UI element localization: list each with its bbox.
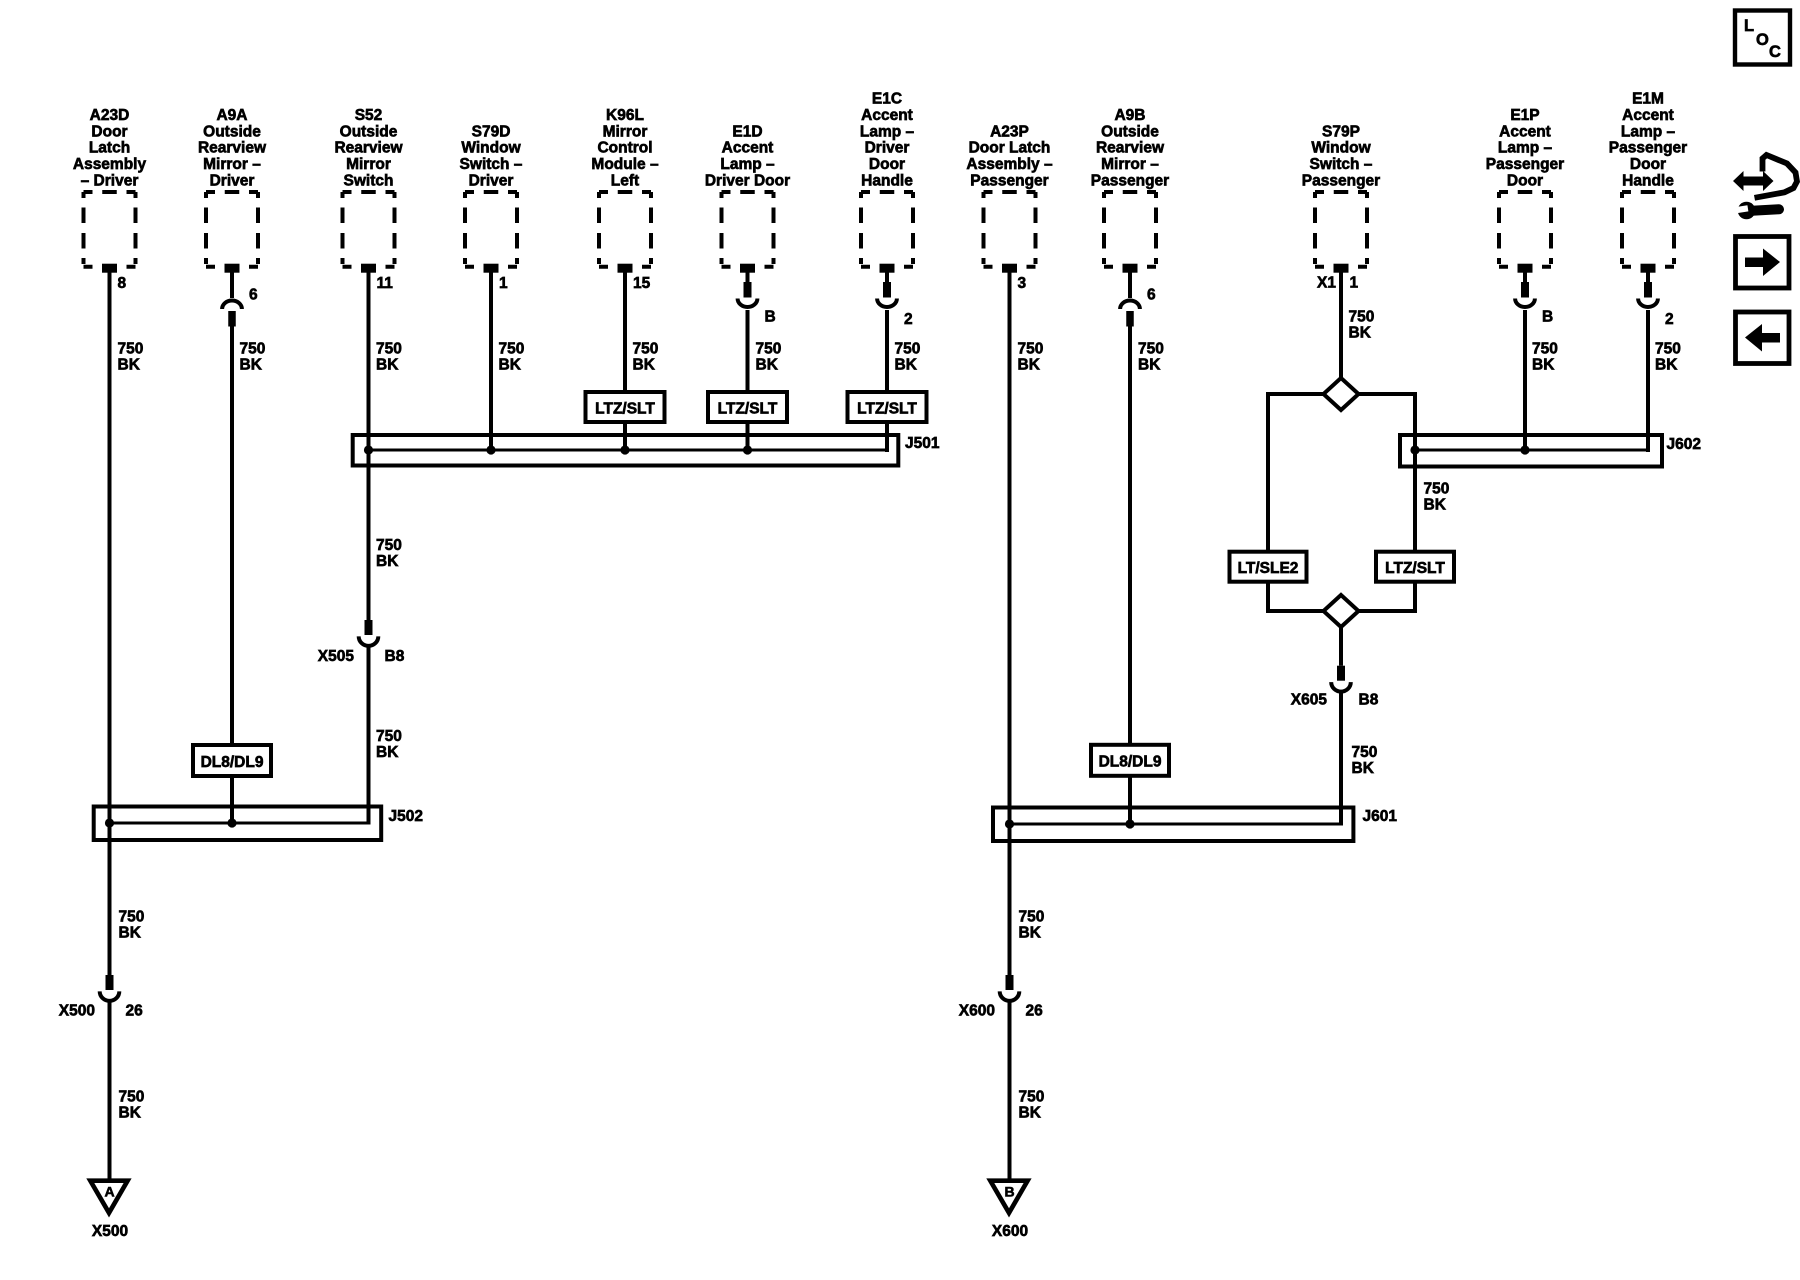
svg-text:A9A: A9A [216,107,247,124]
wire label 750 BK (E1P) [1532,341,1558,374]
svg-text:Switch –: Switch – [460,156,523,173]
svg-text:Handle: Handle [861,173,913,190]
wire label 750 BK (S79D) [499,341,525,374]
wire LT/SLE2 down [1266,582,1270,613]
svg-text:Module –: Module – [591,156,659,173]
svg-text:750: 750 [118,341,144,358]
svg-text:Rearview: Rearview [198,140,267,157]
svg-text:15: 15 [633,275,651,292]
connector box S79D Window Switch - Driver [465,192,517,273]
svg-text:C: C [1769,43,1781,61]
wire A23P pin 3 to X600 [1008,267,1012,975]
label E1P [1486,107,1564,190]
wire label 750 BK (E1D) [756,341,782,374]
svg-text:Latch: Latch [89,140,130,157]
wire X500 to ground A [108,1003,112,1181]
svg-text:E1M: E1M [1632,91,1664,108]
wire left branch to lower diamond [1266,609,1324,613]
svg-text:BK: BK [1349,325,1372,342]
svg-text:Driver: Driver [210,173,255,190]
svg-text:750: 750 [1424,481,1450,498]
svg-text:Window: Window [461,140,521,157]
harness repair icon (double arrow, hook arrow, wrench) [1733,155,1797,219]
svg-text:A9B: A9B [1114,107,1145,124]
svg-text:K96L: K96L [606,107,644,124]
svg-text:2: 2 [904,311,913,328]
svg-text:Switch –: Switch – [1310,156,1373,173]
splice pack J601 [993,808,1353,842]
svg-text:LTZ/SLT: LTZ/SLT [1385,560,1445,577]
svg-text:BK: BK [756,357,779,374]
svg-text:750: 750 [1655,341,1681,358]
wire label 750 BK (A23P lower) [1019,909,1045,942]
svg-text:J601: J601 [1363,808,1398,825]
svg-text:BK: BK [119,1105,142,1122]
svg-text:LT/SLE2: LT/SLE2 [1238,560,1299,577]
svg-text:Passenger: Passenger [1091,173,1169,190]
svg-text:Passenger: Passenger [970,173,1048,190]
connector box A23P Door Latch Assembly - Passenger [984,192,1036,273]
svg-text:X1: X1 [1317,275,1336,292]
label A23P [966,123,1053,189]
svg-text:26: 26 [126,1003,144,1020]
wire LTZ/SLT to J501 (K96L) [623,422,627,450]
svg-text:1: 1 [499,275,508,292]
harness option box LTZ/SLT (right S79P branch) [1376,552,1454,582]
svg-text:BK: BK [1424,497,1447,514]
wire label 750 BK (A23D lower) [119,909,145,942]
ground A (X500) [86,1178,131,1217]
connector box A9A Outside Rearview Mirror - Driver [206,192,258,273]
svg-text:Handle: Handle [1622,173,1674,190]
harness option box LTZ/SLT (E1D branch) [708,392,787,422]
svg-text:J502: J502 [389,808,423,825]
svg-text:BK: BK [376,744,399,761]
svg-text:S79D: S79D [472,123,511,140]
svg-text:LTZ/SLT: LTZ/SLT [595,400,655,417]
svg-text:A23P: A23P [990,123,1029,140]
label S79D [460,123,523,189]
svg-text:Driver: Driver [865,140,910,157]
svg-text:Window: Window [1311,140,1371,157]
svg-text:Door: Door [91,123,127,140]
harness option box DL8/DL9 (A9B branch) [1091,745,1169,776]
inline connector A9B pin 6 [1120,267,1140,327]
svg-text:Passenger: Passenger [1486,156,1564,173]
wire E1D to LTZ/SLT [746,310,750,392]
svg-text:X500: X500 [59,1003,95,1020]
wire diamond to left branch [1268,392,1324,396]
svg-text:DL8/DL9: DL8/DL9 [201,754,264,771]
svg-text:Driver Door: Driver Door [705,173,790,190]
svg-text:X600: X600 [992,1223,1028,1240]
wire label 750 BK (A9B upper) [1138,341,1164,374]
svg-text:BK: BK [633,357,656,374]
label A9A [198,107,267,190]
svg-text:Switch: Switch [344,173,394,190]
svg-text:E1D: E1D [732,123,762,140]
svg-text:Left: Left [611,173,639,190]
svg-text:L: L [1744,17,1754,35]
svg-text:3: 3 [1018,275,1027,292]
svg-text:Control: Control [597,140,652,157]
svg-text:6: 6 [249,287,258,304]
splice diamond upper (S79P split) [1324,378,1359,410]
svg-text:B: B [1004,1184,1014,1200]
connector box E1M Accent Lamp - Passenger Door Handle [1622,192,1674,273]
svg-text:Mirror: Mirror [346,156,391,173]
svg-text:DL8/DL9: DL8/DL9 [1099,754,1162,771]
svg-text:B8: B8 [385,648,405,665]
wire S52 pin 11 through J501 to X505 [367,267,371,620]
svg-text:Mirror –: Mirror – [203,156,261,173]
svg-text:S79P: S79P [1322,123,1360,140]
svg-text:E1C: E1C [872,91,902,108]
svg-text:Accent: Accent [1622,107,1674,124]
svg-text:750: 750 [1019,1089,1045,1106]
svg-text:8: 8 [118,275,127,292]
svg-text:750: 750 [119,1089,145,1106]
svg-text:Lamp –: Lamp – [720,156,775,173]
svg-text:750: 750 [240,341,266,358]
svg-text:Rearview: Rearview [334,140,403,157]
wire label 750 BK (A9A upper) [240,341,266,374]
svg-text:Driver: Driver [469,173,514,190]
wire S79D pin 1 to J501 [489,267,493,450]
label S52 [334,107,403,190]
wire label 750 BK (E1C) [895,341,921,374]
forward arrow box [1736,237,1790,289]
connector box S79P Window Switch - Passenger [1315,192,1367,273]
svg-text:750: 750 [376,537,402,554]
wire X605 to J601 [1339,691,1343,823]
svg-text:Assembly –: Assembly – [966,156,1053,173]
svg-text:B: B [1542,309,1553,326]
connector box S52 Outside Rearview Mirror Switch [343,192,395,273]
wire label 750 BK (J602 branch) [1424,481,1450,514]
svg-text:S52: S52 [355,107,383,124]
wire DL8/DL9 to J601 [1128,776,1132,823]
svg-text:Accent: Accent [722,140,774,157]
svg-text:Accent: Accent [1499,123,1551,140]
inline connector X605 B8 [1331,666,1351,692]
label E1C [860,91,915,190]
wire LTZ/SLT down [1413,582,1417,613]
wire E1C to LTZ/SLT [885,310,889,392]
wire lower diamond to X605 [1339,626,1343,666]
svg-text:BK: BK [1655,357,1678,374]
svg-text:Lamp –: Lamp – [860,123,915,140]
svg-text:750: 750 [376,341,402,358]
svg-text:O: O [1756,31,1769,49]
svg-text:BK: BK [118,357,141,374]
inline connector E1C pin 2 [877,267,897,307]
wire label 750 BK (X605 to J601) [1352,744,1378,777]
connector box E1D Accent Lamp - Driver Door [722,192,774,273]
wire E1P to J602 [1523,310,1527,450]
svg-text:X505: X505 [318,648,355,665]
label K96L [591,107,659,190]
svg-text:X600: X600 [959,1003,995,1020]
svg-text:LTZ/SLT: LTZ/SLT [718,400,778,417]
inline connector E1D pin B [738,267,758,307]
splice pack J602 [1400,435,1662,467]
connector box A9B Outside Rearview Mirror - Passenger [1104,192,1156,273]
svg-text:750: 750 [1349,309,1375,326]
inline connector X500 26 [100,975,120,1001]
svg-text:BK: BK [1018,357,1041,374]
label A9B [1091,107,1169,190]
wire X505 to J502 [367,647,371,823]
label S79P [1302,123,1380,189]
svg-text:750: 750 [119,909,145,926]
svg-text:BK: BK [1532,357,1555,374]
wire label 750 BK (S52 mid) [376,537,402,570]
wire K96L pin 15 to LTZ/SLT [623,267,627,392]
inline connector E1P pin B [1515,267,1535,307]
wire E1M to J602 [1646,310,1650,452]
wire label 750 BK (A23P upper) [1018,341,1044,374]
label A23D [73,107,147,190]
wire label 750 BK (K96L) [633,341,659,374]
splice diamond lower (S79P merge) [1324,595,1359,627]
svg-text:750: 750 [499,341,525,358]
svg-text:Mirror: Mirror [603,123,648,140]
svg-text:1: 1 [1350,275,1359,292]
svg-text:BK: BK [376,357,399,374]
svg-text:A: A [104,1184,114,1200]
svg-text:Lamp –: Lamp – [1498,140,1553,157]
svg-text:750: 750 [1018,341,1044,358]
svg-text:J501: J501 [905,435,940,452]
splice pack J501 [353,435,899,466]
inline connector X505 B8 [359,620,379,646]
svg-text:Passenger: Passenger [1609,140,1687,157]
svg-text:Door: Door [1630,156,1666,173]
svg-text:750: 750 [633,341,659,358]
wire A9B pin 6 to DL8/DL9 [1128,327,1132,746]
svg-text:BK: BK [499,357,522,374]
connector box K96L Mirror Control Module - Left [599,192,651,273]
svg-text:A23D: A23D [90,107,130,124]
wire right branch through J602 to LTZ/SLT [1413,392,1417,552]
wire label 750 BK (A23D upper) [118,341,144,374]
svg-text:750: 750 [756,341,782,358]
svg-text:750: 750 [1019,909,1045,926]
wire A9A pin 6 to DL8/DL9 [230,327,234,746]
harness option box LTZ/SLT (K96L branch) [586,392,665,422]
back arrow box [1736,312,1790,364]
harness option box DL8/DL9 (A9A branch) [193,745,271,776]
wire LTZ/SLT to J501 (E1C) [885,422,889,452]
svg-text:Door Latch: Door Latch [969,140,1051,157]
svg-text:Lamp –: Lamp – [1621,123,1676,140]
wire diamond to right branch [1358,392,1415,396]
wire right branch to lower diamond [1358,609,1417,613]
svg-text:BK: BK [1138,357,1161,374]
wire label 750 BK (below X500) [119,1089,145,1122]
svg-text:Outside: Outside [1101,123,1159,140]
svg-text:Assembly: Assembly [73,156,147,173]
svg-text:BK: BK [376,553,399,570]
wire S79P pin 1 to diamond [1339,267,1343,379]
svg-text:LTZ/SLT: LTZ/SLT [857,400,917,417]
svg-text:BK: BK [1352,760,1375,777]
connector box E1P Accent Lamp - Passenger Door [1499,192,1551,273]
svg-text:B8: B8 [1359,692,1379,709]
ground B (X600) [986,1178,1031,1217]
inline connector A9A pin 6 [222,267,242,327]
harness option box LT/SLE2 (left S79P branch) [1230,552,1307,582]
svg-text:11: 11 [377,275,394,292]
svg-text:B: B [765,309,776,326]
wire label 750 BK (X505 to J502) [376,728,402,761]
svg-text:26: 26 [1026,1003,1044,1020]
svg-text:X605: X605 [1291,692,1328,709]
svg-text:Door: Door [1507,173,1543,190]
svg-text:Accent: Accent [861,107,913,124]
wire left branch down to LT/SLE2 [1266,392,1270,552]
wire DL8/DL9 to J502 [230,776,234,823]
svg-text:6: 6 [1147,287,1156,304]
svg-text:BK: BK [1019,1105,1042,1122]
svg-text:BK: BK [119,925,142,942]
wire label 750 BK (S52 upper) [376,341,402,374]
svg-text:Mirror –: Mirror – [1101,156,1159,173]
splice pack J502 [94,807,382,841]
inline connector E1M pin 2 [1638,267,1658,307]
wire X600 to ground B [1008,1003,1012,1181]
inline connector X600 26 [1000,975,1020,1001]
wire label 750 BK (S79P) [1349,309,1375,342]
svg-text:2: 2 [1665,311,1674,328]
svg-text:750: 750 [376,728,402,745]
LOC legend box [1735,11,1790,65]
svg-text:BK: BK [1019,925,1042,942]
svg-text:750: 750 [1138,341,1164,358]
svg-text:E1P: E1P [1510,107,1539,124]
wire A23D pin 8 to X500 [108,267,112,975]
wire label 750 BK (below X600) [1019,1089,1045,1122]
svg-text:Outside: Outside [203,123,261,140]
svg-text:BK: BK [240,357,263,374]
harness option box LTZ/SLT (E1C branch) [848,392,927,422]
svg-text:X500: X500 [92,1223,128,1240]
svg-text:J602: J602 [1667,436,1701,453]
svg-text:750: 750 [1532,341,1558,358]
svg-text:750: 750 [1352,744,1378,761]
svg-text:BK: BK [895,357,918,374]
svg-text:Rearview: Rearview [1096,140,1165,157]
connector box A23D Door Latch Assembly - Driver [84,192,136,273]
label E1M [1609,91,1687,190]
svg-text:750: 750 [895,341,921,358]
svg-text:– Driver: – Driver [81,173,139,190]
wire LTZ/SLT to J501 (E1D) [746,422,750,450]
svg-text:Outside: Outside [340,123,398,140]
label E1D [705,123,790,189]
connector box E1C Accent Lamp - Driver Door Handle [861,192,913,273]
svg-text:Passenger: Passenger [1302,173,1380,190]
wire label 750 BK (E1M) [1655,341,1681,374]
svg-text:Door: Door [869,156,905,173]
